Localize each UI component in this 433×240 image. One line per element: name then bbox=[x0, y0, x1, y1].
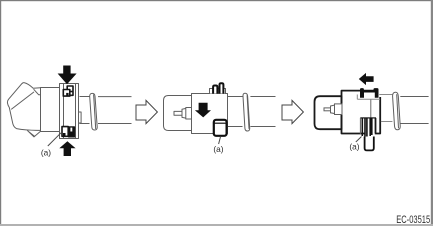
fig2 cylinder upper line bbox=[228, 96, 243, 98]
fig1 housing seam double line bbox=[29, 132, 35, 136]
fig1 connector angled housing bbox=[7, 83, 40, 131]
fig2 terminal block bbox=[186, 108, 192, 120]
fig3 clip slot right wall bbox=[375, 118, 377, 133]
fig3 terminal pin bbox=[324, 108, 332, 111]
fig3 black arrow pointing left bbox=[359, 73, 374, 85]
fig1 ring hub stub bbox=[79, 112, 82, 123]
fig3 terminal plate bbox=[331, 105, 336, 114]
frame top border bbox=[0, 0, 433, 1]
fig1 retainer ring inner lines bbox=[64, 84, 76, 139]
fig1 top clip black detail bbox=[66, 93, 68, 96]
fig3 pipe upper line bbox=[400, 96, 428, 98]
fig1 bottom clip right box bbox=[69, 127, 75, 137]
fig1 pipe collar bead bbox=[90, 93, 98, 130]
fig1 retainer ring outer bbox=[60, 84, 79, 139]
fig1 pipe upper line bbox=[80, 96, 132, 98]
fig2 main body bbox=[192, 94, 228, 134]
fig1 bottom black arrow pointing up bbox=[59, 141, 75, 156]
fig2 terminal pin bbox=[174, 111, 183, 115]
fig1 top clip left box bbox=[63, 90, 70, 97]
frame bottom border bbox=[0, 224, 433, 226]
fig3 pipe lower line bbox=[400, 123, 428, 125]
step arrow 2 (white outline arrow) bbox=[282, 100, 303, 123]
fig2 cylinder lower line bbox=[228, 126, 243, 128]
fig1 bottom clip left black detail bbox=[63, 133, 66, 136]
fig3 label leader line bbox=[356, 137, 362, 143]
fig3 collar inner line bbox=[397, 94, 399, 128]
fig2 rear housing rounded body bbox=[164, 96, 192, 131]
fig3 clip slot left edge bbox=[359, 118, 361, 135]
fig1 label leader line bbox=[48, 133, 61, 146]
fig1 top black arrow pointing down bbox=[58, 66, 77, 85]
fig3 main body outline bbox=[342, 91, 381, 134]
fig2 release prong left bbox=[213, 86, 217, 94]
fig3 terminal block bbox=[335, 104, 343, 115]
fig3 latch bottom line bbox=[357, 95, 380, 100]
fig3 cylinder upper line bbox=[379, 94, 392, 96]
svg-text:(a): (a) bbox=[349, 142, 359, 152]
svg-text:(a): (a) bbox=[213, 144, 223, 154]
step arrow 1 (white outline arrow) bbox=[136, 100, 157, 123]
fig2 release prong right bbox=[220, 83, 224, 93]
fig2 black arrow pointing down bbox=[195, 103, 211, 118]
fig2 clip inner line bbox=[215, 122, 227, 124]
fig3 latch inner white bbox=[365, 93, 375, 99]
fig2 collar inner line bbox=[247, 95, 249, 129]
svg-text:(a): (a) bbox=[41, 147, 51, 157]
fig3 clip pulled-down bars bbox=[362, 118, 372, 137]
fig1 connector body cylinder bbox=[41, 88, 61, 132]
fig3 pipe collar bead bbox=[393, 92, 401, 130]
svg-text:EC-03515: EC-03515 bbox=[396, 214, 430, 226]
fig2 retainer clip highlighted bbox=[214, 120, 227, 136]
fig3 clip tab hanging below bbox=[365, 137, 374, 151]
fig1 top clip right box bbox=[67, 86, 73, 95]
fig1 pipe lower line bbox=[80, 123, 132, 125]
fig1 bottom clip left box bbox=[62, 127, 68, 137]
fig1 top clip right box divider bbox=[67, 91, 73, 93]
frame left border bbox=[0, 0, 1, 224]
fig3 latch released on top bbox=[360, 88, 379, 98]
fig2 pipe collar bead bbox=[243, 93, 250, 131]
fig2 label leader line bbox=[219, 137, 221, 144]
fig3 main body white fill bbox=[342, 91, 381, 134]
fig2 pipe lower line bbox=[250, 126, 275, 128]
fig3 clip slot top edge bbox=[360, 117, 376, 119]
fig3 cylinder lower line bbox=[381, 121, 393, 123]
fig1 collar inner line bbox=[94, 94, 96, 129]
fig1 housing side edge bbox=[34, 89, 41, 95]
fig1 housing bottom foot bbox=[27, 130, 40, 137]
fig3 body inner corner line bbox=[370, 99, 372, 118]
fig1 bottom clip right white slot bbox=[70, 128, 72, 132]
fig1 housing lid bottom edge bbox=[11, 92, 34, 110]
fig2 pipe upper line bbox=[250, 96, 275, 98]
fig3 rear housing rounded body bbox=[315, 96, 342, 129]
fig2 terminal plate bbox=[182, 108, 187, 118]
frame right border bbox=[431, 0, 433, 224]
fig2 raised latch base bbox=[210, 89, 226, 94]
